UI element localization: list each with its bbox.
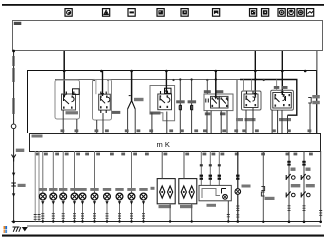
lamp E5 ground wire [81, 200, 84, 223]
connector wire with bracket 3J00Y [261, 151, 274, 223]
lamp E1 label [39, 188, 47, 191]
lamp E2 feed wire [52, 151, 54, 194]
icon S12 [307, 9, 314, 17]
lamp E10 label [139, 188, 147, 191]
lamp E3 ground wire [62, 200, 65, 223]
K box bottom pin labels [36, 153, 313, 156]
feed wire plate right to K box [316, 51, 318, 133]
lamp E8 ground wire [118, 200, 121, 223]
gauge box P1 with diamond lamps [157, 179, 175, 204]
gauge box P2 with diamond lamps [179, 179, 197, 204]
feed wire from plate to relay K1 [63, 51, 65, 97]
lamp E9 ground wire [130, 200, 133, 223]
relay K4 labels above [204, 90, 224, 93]
relay K2 label 5J5F [112, 111, 121, 114]
relay K2 holder box [93, 80, 112, 121]
right edge ground wire [319, 151, 322, 223]
relay K2 output wires [97, 113, 103, 133]
lamp E10 ground wire [142, 200, 145, 223]
relay K1 label 1J000F [66, 111, 79, 114]
icon S10 [288, 9, 295, 17]
motor unit M box [199, 185, 231, 200]
bottom border bar [2, 235, 324, 237]
relay K3 label 1000F [150, 112, 161, 115]
fuse A60A label [134, 98, 144, 101]
lamp E7 label [103, 188, 111, 191]
relay K2 inner body [96, 80, 110, 114]
bus line 2 (secondary rail) [55, 80, 297, 116]
gauge ground wires [169, 204, 193, 223]
icon S7 [250, 9, 257, 17]
fuse F2 30A wire [188, 78, 197, 133]
connector circle on left feed [11, 124, 16, 129]
switch column 1 [286, 151, 300, 223]
lamp E6 feed wire [94, 151, 96, 194]
relay K4 labels below [205, 112, 226, 115]
icon S1 [65, 9, 72, 17]
wire with label A30 [236, 80, 243, 133]
lamp E2 ground wire [52, 200, 55, 223]
motor unit M label [207, 204, 217, 207]
gauge box P1 label [159, 205, 172, 208]
lamp E8 label [115, 188, 123, 191]
arrow contact 2 on left feed [12, 193, 15, 197]
top box (relay plate) [13, 21, 323, 51]
icon S9 [278, 9, 285, 17]
feed wire from plate at x=282 [281, 51, 283, 95]
lamp E4 feed wire [74, 151, 76, 194]
relay K6 inner body [273, 93, 292, 109]
ground arrow symbol [22, 227, 28, 231]
junction dots on bus line 1 [63, 70, 307, 73]
arrow contact on left feed [12, 173, 15, 177]
logo marker (colour squares) [4, 226, 8, 233]
note label in relay plate [14, 22, 21, 25]
lamp E4 [71, 193, 78, 200]
connector pair symbol on left feed [12, 155, 16, 162]
switch column 2 [301, 151, 315, 223]
relay K5 inner body [244, 91, 258, 107]
lamp E9 label [127, 188, 135, 191]
wire label A-531 (rotated) on left feed [12, 56, 14, 82]
junction dots on bus line 2 [93, 79, 265, 81]
icon S11 [297, 9, 304, 17]
relay K6 label SS3W below [279, 118, 291, 121]
relay K6 holder box [271, 80, 294, 111]
wire: battery feed (left vertical) [12, 50, 15, 124]
relay K1 pin30 sub-box [73, 89, 80, 95]
bottom bus 2 (ground rail) [27, 225, 321, 227]
gauge box P2 label [180, 205, 193, 208]
lamp E8 [116, 193, 123, 200]
lamp E1 feed wire [42, 151, 44, 194]
junction dot left feed to bus1 [12, 220, 15, 223]
icon S5 [181, 9, 188, 17]
relay feed arrow tips [63, 91, 284, 100]
icon S2 [103, 9, 110, 17]
lamp E5 [79, 193, 86, 200]
lamp E6 [91, 193, 98, 200]
bus line 1 (main feed rail) [28, 71, 317, 134]
wire label A-533 (rotated) on left feed [12, 98, 14, 114]
relay K5 holder box [242, 80, 262, 111]
lamp E9 feed wire [131, 151, 133, 194]
relay K4 feed from bus1 [215, 71, 217, 96]
lamp E2 label [49, 188, 57, 191]
relay K4 (double relay) box [204, 94, 233, 111]
relay pin number specks [63, 94, 290, 109]
relay K4 feed from bus2 [206, 80, 208, 95]
relay K6 output wires [272, 110, 287, 133]
K box designator text [157, 140, 170, 149]
relay K6 labels above inner [274, 86, 288, 89]
switch symbol with label M003 on left feed [11, 183, 25, 187]
lamp E7 ground wire [105, 200, 108, 223]
fuse A60A leg wires to K box [128, 109, 136, 133]
wire: left feed lower section [13, 129, 15, 222]
lamp E3 [60, 193, 67, 200]
top border bar [2, 4, 324, 6]
lamp E4 label [70, 188, 78, 191]
K box top pin labels [61, 129, 312, 132]
lamp E6 ground wire [93, 200, 96, 223]
svg-text:m K: m K [157, 140, 170, 149]
bottom bus 1 [12, 221, 322, 223]
motor unit ground wires [227, 201, 230, 223]
lamp E11 on heavy wire [235, 151, 251, 223]
lamp E6 label [90, 188, 98, 191]
bare wires from K to bus (left) [34, 151, 41, 222]
icon S8 [262, 9, 269, 17]
lamp E7 [104, 193, 111, 200]
lamp E10 [140, 193, 147, 200]
lamp E2 [50, 193, 57, 200]
relay K1 output wires [63, 110, 77, 133]
relay K2 feed from bus1 [102, 71, 104, 96]
relay K5 label 4350 [245, 118, 256, 121]
control unit K box [30, 134, 321, 152]
relay K3 holder box [150, 86, 175, 121]
lamp E3 label [59, 188, 67, 191]
lamp E1 ground wire [41, 200, 44, 223]
wire HD with connector bracket [308, 95, 320, 133]
fuse F1 30A wire [176, 78, 185, 133]
icon S4 [157, 9, 164, 17]
lamp E1 [39, 193, 46, 200]
ground symbol (hatched) [13, 227, 21, 232]
relay K1 holder box [55, 80, 80, 119]
fuse A60A with contact fork [128, 71, 136, 109]
relay K4 output wires [207, 111, 227, 133]
lamp E5 label [78, 188, 86, 191]
gauge feed wires [151, 151, 185, 190]
relay K4 inner contacts [206, 96, 228, 108]
feed wire from plate at x=255 [254, 51, 256, 97]
label 1J09 on left feed [16, 149, 24, 152]
lamp E4 ground wire [73, 200, 76, 223]
motor unit M box wires (4 inputs) [200, 151, 221, 185]
icon S6 [213, 9, 220, 17]
relay K3 inner body [158, 91, 172, 110]
lamp E3 feed wire [62, 151, 64, 194]
relay K1 inner body [62, 92, 76, 111]
relay K5 output wires [246, 108, 253, 134]
relay K3 pin sub-box [165, 88, 172, 93]
relay K3 output wires [152, 112, 167, 134]
lamp E9 [128, 193, 135, 200]
icon S3 [128, 9, 135, 17]
relay K3 feed from bus1 [165, 71, 167, 91]
K box internal label top-left [32, 135, 43, 138]
